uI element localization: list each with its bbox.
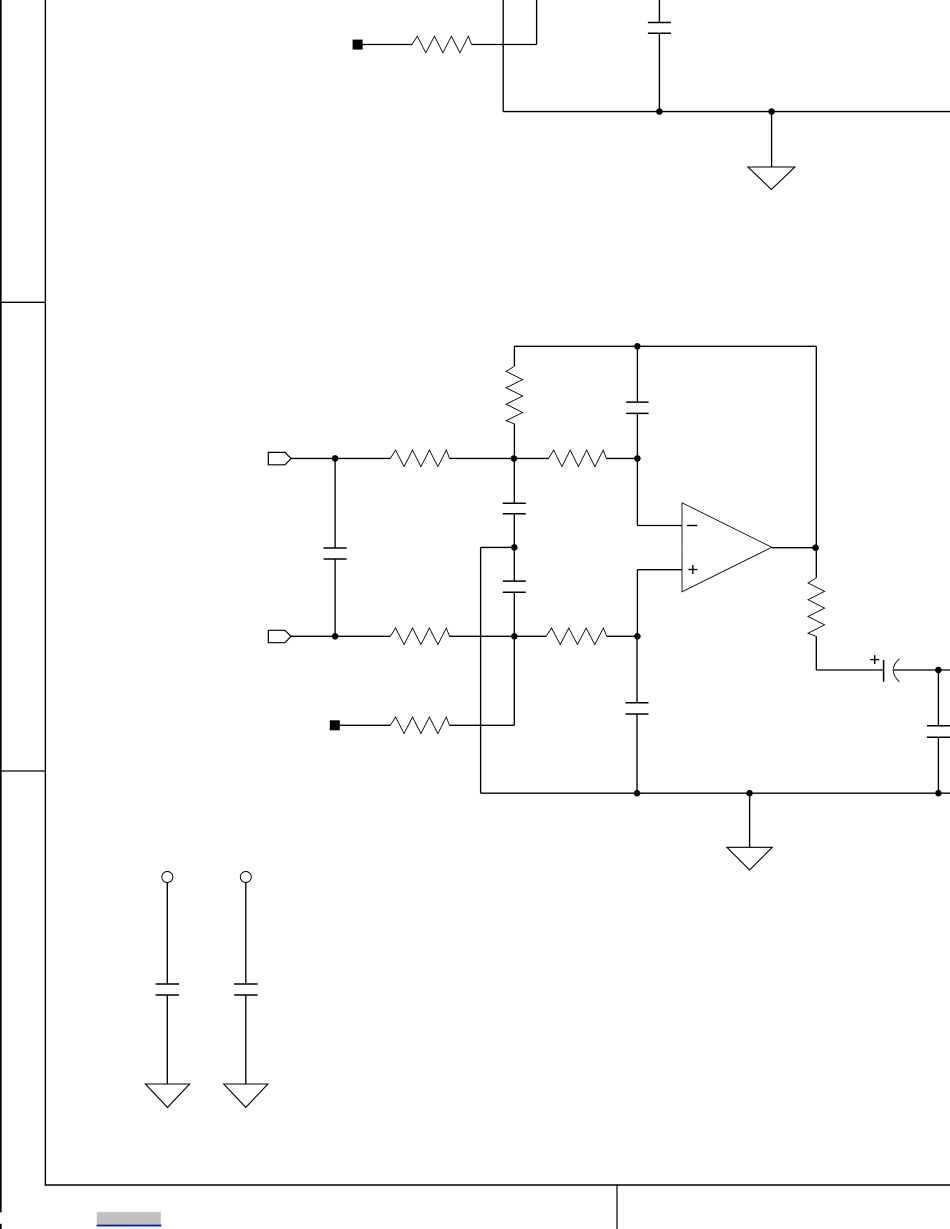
op-amp U1 [682,503,772,592]
junction ground on bottom rail [746,790,753,797]
pin P1 (open circle) [162,872,173,883]
junction C1 on rail [656,108,663,115]
capacitor C3 bottom lead [334,559,336,636]
wire C6 to node D [894,669,950,671]
junction inverting node [634,455,641,462]
capacitor C8 bottom lead [636,714,638,793]
resistor R7 [808,578,825,637]
wire R6 to non-inverting node [607,635,638,637]
wire J1 to R3 [291,457,390,459]
resistor R7 top lead [815,548,817,578]
ground GND1 [748,167,795,190]
capacitor C8 top lead [636,636,638,703]
op-amp U1 minus sign [687,525,697,527]
sheet border left outer line (lower stub) [0,1224,2,1229]
ground GND3 [145,1084,189,1107]
resistor R1 [412,36,472,53]
capacitor C10 top lead [245,883,247,985]
junction ground on rail [768,108,775,115]
title block divider vertical [616,1185,618,1229]
wire R8 to node F vertical [450,724,515,726]
polarized capacitor C6 plus sign [870,655,879,664]
resistor R7 bottom lead [815,636,817,670]
wire vertical net left (to top rail) [502,0,504,112]
capacitor C7 bottom lead [937,737,939,793]
capacitor C7 [927,726,950,737]
wire bottom ground rail [481,792,950,794]
sheet zone tick lower [0,770,45,772]
wire inverting input vertical [636,458,638,525]
ground GND1 stem [771,112,773,167]
capacitor C5 [503,581,526,592]
capacitor C2 top lead [636,346,638,402]
terminal T2 (black square) [330,720,340,730]
junction node B (R2/C4) [511,455,518,462]
wire feedback top [514,345,816,347]
wire R4 to inverting node [606,457,637,459]
footer link underline (blue) [97,1225,162,1227]
junction node E (C3 bottom) [332,633,339,640]
wire non-inverting input horizontal [637,569,682,571]
wire node C down left vertical [480,547,482,793]
capacitor C8 [626,703,649,714]
capacitor C9 bottom lead [166,995,168,1084]
wire T1 to R1 [363,44,412,46]
wire vertical net up from R1 node [536,0,538,45]
wire C4 to node C [513,514,515,548]
wire feedback right vertical [815,346,817,547]
capacitor C4 [503,503,526,514]
footer link placeholder (gray box) [97,1212,161,1224]
capacitor C5 bottom lead to row 2 [513,592,515,636]
capacitor C4 top lead [513,458,515,503]
junction node C [511,544,518,551]
capacitor C1 bottom lead [658,33,660,111]
sheet border left outer line (upper part) [0,0,2,1212]
sheet border bottom horizontal line [45,1184,950,1186]
resistor R2 top lead [513,346,515,366]
input port J2 [268,630,291,642]
input port J1 [268,452,291,464]
terminal T1 (black square) [353,40,363,50]
capacitor C5 top lead [513,547,515,581]
capacitor C2 [626,402,648,413]
sheet zone tick upper [0,301,45,303]
resistor R6 [546,628,607,645]
polarized capacitor C6 curved plate [893,659,899,682]
junction non-inverting node [634,633,641,640]
junction C8 on bottom rail [634,790,641,797]
resistor R8 [390,717,449,734]
capacitor C7 top lead [937,670,939,726]
op-amp U1 plus sign [688,565,697,574]
wire node F down [513,636,515,725]
capacitor C9 top lead [166,883,168,985]
junction C7 on bottom rail [935,790,942,797]
polarized capacitor C6 straight plate [883,660,885,682]
junction node A (C3 top) [332,455,339,462]
capacitor C3 [324,548,347,559]
resistor R5 [390,628,449,645]
junction node top (C2) [634,343,641,350]
capacitor C1 top lead [658,0,660,23]
resistor R2 [506,366,523,424]
wire U1 output [772,547,817,549]
junction node F (C4 chain) [511,633,518,640]
wire R3 to R4 [450,457,549,459]
capacitor C9 [156,984,180,995]
resistor R3 [390,450,449,467]
wire T2 to R8 [340,724,391,726]
wire R5 to R6 [450,635,547,637]
junction node D [935,667,942,674]
capacitor C1 [648,23,671,34]
wire R1 to vertical net [472,44,537,46]
capacitor C3 top lead [334,458,336,548]
resistor R4 [549,450,607,467]
wire top ground rail [503,111,950,113]
resistor R2 bottom lead [513,424,515,459]
ground GND4 [224,1084,268,1107]
wire node C stub left [481,546,515,548]
pin P2 (open circle) [240,872,251,883]
wire inverting input horizontal [637,525,682,527]
ground GND2 stem [749,793,751,847]
wire J2 to R5 [291,635,390,637]
capacitor C2 bottom lead [636,413,638,458]
sheet border inner vertical line [44,0,46,1186]
wire R7 to C6 [816,669,883,671]
capacitor C10 bottom lead [245,995,247,1084]
junction output node [812,544,819,551]
wire non-inverting input vertical [636,570,638,637]
capacitor C10 [234,984,258,995]
ground GND2 [727,847,772,870]
